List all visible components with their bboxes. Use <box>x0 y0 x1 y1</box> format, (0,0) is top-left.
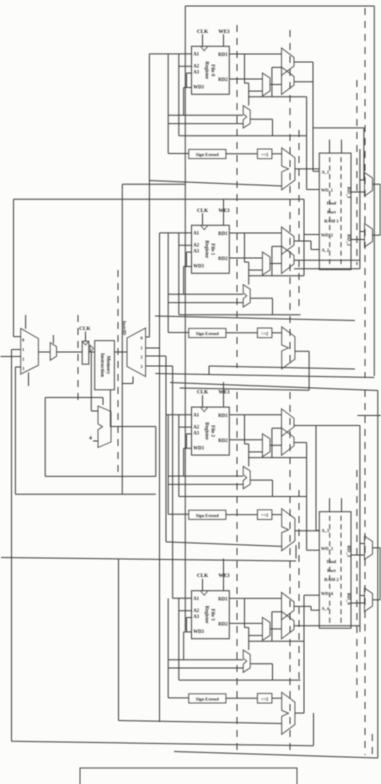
svg-text:A_3: A_3 <box>322 528 330 533</box>
ALU M1 out to RAM1 A_1 row <box>295 168 319 170</box>
svg-text:RD1: RD1 <box>218 414 228 419</box>
mux B0 <box>282 67 295 95</box>
svg-text:Port: Port <box>327 210 336 215</box>
ALU M2 <box>282 509 295 551</box>
wire y558 lane4 feed <box>1 558 296 562</box>
svg-text:File 1: File 1 <box>210 243 215 255</box>
svg-text:WD3: WD3 <box>193 265 204 270</box>
mux H select stub <box>52 335 54 344</box>
svg-text:A3: A3 <box>193 250 199 255</box>
svg-text:RD2: RD2 <box>218 622 228 627</box>
svg-text:2: 2 <box>140 355 142 360</box>
wire lower loop y97 lane 1 <box>249 275 304 277</box>
svg-text:WE3: WE3 <box>218 573 230 579</box>
mux A3 <box>282 592 295 620</box>
svg-text:Dual: Dual <box>327 201 337 206</box>
mux B2 out to x306.6 <box>294 442 307 444</box>
RAM 2 internal dashed columns <box>329 516 331 624</box>
mux G input 3 wire <box>15 366 20 368</box>
mux H output wire <box>57 351 83 353</box>
lane4 mux A out to RAM2 A_4 <box>294 605 311 607</box>
svg-text:A2: A2 <box>193 609 199 614</box>
RAM2 RD_3 wire to mux E2 <box>351 554 365 556</box>
svg-text:File 3: File 3 <box>210 609 215 621</box>
wire RD1 tap down <box>244 54 246 83</box>
svg-text:CLK: CLK <box>197 390 208 396</box>
svg-text:Register: Register <box>204 61 209 80</box>
register file 3 box <box>192 591 230 639</box>
mux B0 out to x313 <box>294 81 313 83</box>
svg-text:File 0: File 0 <box>210 64 215 76</box>
svg-text:A1: A1 <box>193 597 199 602</box>
lane4 mux B out right <box>294 625 360 627</box>
register file 0 clock wedge <box>201 46 209 51</box>
instruction memory box <box>95 341 115 390</box>
register file 3 clock wedge <box>201 591 209 596</box>
RAM 2 top input stubs <box>329 498 331 512</box>
ALU M0 bottom input wire <box>149 181 281 187</box>
adder D2 <box>243 466 250 488</box>
register file 2 box <box>192 407 230 455</box>
svg-text:Register: Register <box>204 240 209 259</box>
adder input wires <box>91 410 98 412</box>
mux E2 output <box>373 547 381 549</box>
svg-text:A1: A1 <box>193 413 199 418</box>
svg-text:A_2: A_2 <box>322 248 330 253</box>
wire into mux A3 lower input <box>272 611 282 613</box>
left main vertical bus <box>184 6 186 631</box>
svg-text:A3: A3 <box>193 615 199 620</box>
instr mux branch wires <box>146 336 150 338</box>
wire CLK to register file 2 <box>202 395 204 407</box>
vertical right of RAM1 <box>359 149 361 269</box>
instr mux output to memory <box>114 351 127 353</box>
half A lower bus <box>155 316 355 321</box>
wire RD2 to mux C2 <box>229 439 262 441</box>
mux F1 left stub <box>360 231 365 233</box>
wire into mux A2 lower input <box>272 427 282 429</box>
mux G input 2 wire from edge <box>1 356 21 358</box>
half B top bus wires <box>209 366 355 369</box>
register file 2 clock wedge <box>201 407 209 412</box>
sign extend 3 box <box>189 694 226 703</box>
svg-text:RD_4: RD_4 <box>346 593 351 605</box>
svg-text:<<2: <<2 <box>261 331 268 336</box>
shift left 2 box 1 <box>257 328 272 338</box>
svg-text:4: 4 <box>89 436 92 442</box>
dashed line x357 half B <box>356 470 358 700</box>
mux C0 <box>262 73 270 96</box>
lane4 ALU M4 out up to RAM2 WD_4 <box>295 712 304 714</box>
svg-text:RD1: RD1 <box>218 53 228 58</box>
mux G output wire <box>38 351 50 353</box>
mux E2 left stub <box>360 543 365 545</box>
vertical x313 to RAM1 A_1 <box>312 62 314 171</box>
wire WE3 to register file 1 <box>223 213 225 225</box>
dashed line x365 half A <box>364 8 366 378</box>
RAM1 RD_1 wire to mux E1 <box>351 191 365 193</box>
WD_3 feed vertical x306.6 <box>306 443 308 551</box>
wire mux C1 out to mux B1 <box>270 263 282 265</box>
svg-text:CLK: CLK <box>197 29 208 35</box>
writeback mux F1 <box>365 224 373 248</box>
instr bus wires lane 2 <box>168 475 243 477</box>
wire mux C3 out to mux B3 <box>270 628 282 630</box>
wire RD1 to mux A3 <box>229 597 281 599</box>
wire CLK to register file 1 <box>202 213 204 225</box>
svg-text:Register: Register <box>204 606 209 625</box>
lane feed vertical x166 (instr to lane 2) <box>165 356 167 542</box>
input wires register file 1 <box>160 232 192 234</box>
wire shl2 3 out to ALU M3 <box>272 697 282 699</box>
adder D3 output loop <box>250 663 272 665</box>
wire y199 <box>14 198 305 200</box>
PC value down wire <box>90 352 92 411</box>
register file 0 box <box>192 46 230 94</box>
svg-text:RAM 1: RAM 1 <box>324 219 339 224</box>
mux B1 <box>282 246 295 274</box>
wire RD1 to mux A2 <box>229 414 281 416</box>
mux A0 <box>282 48 295 76</box>
bottom wire y752 <box>174 752 378 759</box>
dashed line x237 half B <box>236 392 238 750</box>
register file 1 box <box>192 225 230 273</box>
shift left 2 box 2 <box>257 510 272 520</box>
wire sign extend 2 input <box>167 415 169 515</box>
wire y268.7 <box>294 268 360 270</box>
dashed line x237 half A <box>236 25 238 368</box>
svg-text:Sign Extend: Sign Extend <box>196 513 219 518</box>
mux F1 output <box>373 234 381 236</box>
wire shl2 1 out to ALU M1 <box>272 332 282 334</box>
input wires register file 2 <box>166 414 192 416</box>
svg-text:WD_1: WD_1 <box>321 188 333 193</box>
ALU M1 <box>282 327 295 369</box>
PC out wire <box>89 351 95 353</box>
vertical x122 <box>121 184 123 494</box>
RAM 1 top input stubs <box>329 140 331 154</box>
svg-text:Sign Extend: Sign Extend <box>196 697 219 702</box>
writeback mux F2 <box>365 588 373 612</box>
lane feed vertical x149.4 (instr to lane 0) <box>148 54 150 337</box>
vertical x316 to RAM2 A_3 <box>315 426 317 531</box>
wire RD1 to mux A1 <box>229 232 281 234</box>
wire mux A2 out right along y425.5 <box>294 425 360 427</box>
ALU M3 out to RAM2 A_3 row <box>295 530 319 532</box>
svg-text:Register: Register <box>204 422 209 441</box>
wire y184 <box>122 183 185 185</box>
svg-text:3: 3 <box>22 366 24 371</box>
svg-text:0: 0 <box>22 338 24 343</box>
right border vertical half B <box>377 391 379 759</box>
ALU M3 <box>282 692 295 734</box>
left vertical x11.5 <box>11 350 13 742</box>
instr bus wires lane 1 <box>168 293 243 295</box>
dashed line x365 half B <box>364 390 366 755</box>
sign extend 0 box <box>189 149 226 158</box>
lane2 mux B out right <box>294 259 360 261</box>
RAM2 RD_4 wire to mux F2 <box>351 602 365 604</box>
shift left 2 box 0 <box>257 149 272 159</box>
CLK WE3 feed taps lane 1 <box>223 199 225 213</box>
mux A2 <box>282 409 295 437</box>
adder D1 <box>243 285 250 307</box>
svg-text:RD_3: RD_3 <box>346 545 351 557</box>
svg-text:<<2: <<2 <box>261 513 268 518</box>
svg-text:WD3: WD3 <box>193 630 204 635</box>
dashed line x299 half A <box>298 130 300 310</box>
dashed line x118 <box>117 270 119 472</box>
PC out triangle <box>90 345 93 352</box>
adder D0 <box>243 106 250 128</box>
mux G input 1 wire <box>12 349 21 351</box>
adder loop wires <box>155 427 157 477</box>
instr memory bottom stub <box>109 390 111 427</box>
svg-text:<<2: <<2 <box>261 152 268 157</box>
register file 1 clock wedge <box>201 225 209 230</box>
wire sign extend 3 input <box>167 598 169 698</box>
small mux H <box>50 343 56 361</box>
svg-text:RD_2: RD_2 <box>346 234 351 246</box>
wire lower loop y97 lane 0 <box>249 96 307 98</box>
mux F2 left stub <box>360 595 365 597</box>
wire sign extend 1 input <box>167 233 169 333</box>
svg-text:RD2: RD2 <box>218 78 228 83</box>
dual port RAM 1 box <box>319 153 351 270</box>
vertical x313 up from bottom wire <box>313 713 315 746</box>
CLK WE3 feed taps lane 2 <box>223 382 225 395</box>
wire sign extend 0 input <box>167 54 169 154</box>
mux F2 output <box>373 599 381 601</box>
svg-text:CLK: CLK <box>79 326 90 332</box>
svg-text:A_4: A_4 <box>322 606 330 611</box>
mux E1 left stub <box>360 179 365 181</box>
wire lower loop y97 lane 3 <box>249 640 304 642</box>
wire CLK to register file 0 <box>202 34 204 46</box>
dashed line x78 <box>77 315 79 400</box>
writeback mux E1 <box>365 173 373 197</box>
top border wire <box>185 5 374 7</box>
mux C1 <box>262 252 270 275</box>
svg-text:RD_1: RD_1 <box>346 187 351 199</box>
svg-text:A_1: A_1 <box>322 170 330 175</box>
WD_1 feed vertical x306.6 <box>306 97 308 190</box>
instr mux bottom stub <box>132 377 134 384</box>
wire sign extend 3 out to shl2 <box>226 697 258 699</box>
wire RD2 to mux C1 <box>229 257 262 259</box>
svg-text:A2: A2 <box>193 425 199 430</box>
wire RD2 to mux C3 <box>229 622 262 624</box>
RAM1 WD_2 feed from writeback line <box>303 199 305 275</box>
adder D0 output loop <box>250 118 272 120</box>
svg-text:A2: A2 <box>193 65 199 70</box>
ALU M0 <box>282 148 295 190</box>
wire RD1 tap down <box>244 598 246 627</box>
adder D2 output loop <box>250 479 272 481</box>
left vertical x15.4 <box>14 367 16 494</box>
bottom wire y742 <box>12 741 314 746</box>
svg-text:InstrID: InstrID <box>122 321 127 335</box>
mux C2 <box>262 434 270 457</box>
left vertical x13.5 to mux G <box>13 199 15 336</box>
PC source mux G <box>21 328 39 374</box>
stub wire exiting right edge y415 <box>357 415 381 417</box>
svg-text:WD_3: WD_3 <box>321 546 334 551</box>
wire into mux A1 lower input <box>272 245 282 247</box>
RAM1 RD_2 wire to mux F1 <box>351 239 365 241</box>
wire RD1 tap down <box>244 233 246 262</box>
sign extend 2 box <box>189 510 226 519</box>
mux G select stub top <box>25 315 27 329</box>
wire sign extend 2 out to shl2 <box>226 514 258 516</box>
ALU M2 bottom input wire <box>166 542 282 547</box>
svg-text:Memory: Memory <box>105 356 110 375</box>
wire mux C0 out to mux B0 <box>270 84 282 86</box>
input wires register file 0 <box>149 53 191 55</box>
lane feed vertical x159.5 (instr to lane 1) <box>159 233 161 722</box>
wire CLK to register file 3 <box>202 579 204 591</box>
CLK WE3 feed taps lane 3 <box>223 559 225 579</box>
svg-text:CLK: CLK <box>197 208 208 214</box>
svg-text:RD1: RD1 <box>218 597 228 602</box>
svg-text:1: 1 <box>140 346 142 351</box>
wire WE3 to register file 3 <box>223 579 225 591</box>
M4 feed vertical x118.5 <box>118 559 120 721</box>
svg-text:2: 2 <box>22 357 24 362</box>
adder D1 output loop <box>250 297 272 299</box>
shift left 2 box 3 <box>257 693 272 703</box>
mux G input 0 wire <box>14 336 21 338</box>
mux B2 <box>282 428 295 456</box>
svg-text:A3: A3 <box>193 432 199 437</box>
svg-text:1: 1 <box>22 347 24 352</box>
sign extend 1 box <box>189 328 226 337</box>
dashed line x299 half B <box>298 490 300 690</box>
svg-text:A1: A1 <box>193 53 199 58</box>
svg-text:RD2: RD2 <box>218 257 228 262</box>
wire lower loop y97 lane 2 <box>249 457 307 459</box>
vertical right of RAM2 <box>359 426 361 633</box>
branch to writeback mux E1 <box>313 127 364 129</box>
wire sign extend 0 out to shl2 <box>226 153 258 155</box>
svg-text:A2: A2 <box>193 244 199 249</box>
dual port RAM 2 box <box>319 512 351 629</box>
svg-text:A3: A3 <box>193 71 199 76</box>
svg-text:WD3: WD3 <box>193 447 204 452</box>
wire shl2 0 out to ALU M0 <box>272 153 282 155</box>
wire y494 <box>15 493 155 495</box>
mux G select stub bottom <box>28 373 30 387</box>
adder D3 <box>243 650 250 672</box>
instr bus wires lane 3 <box>168 659 243 661</box>
PC+4 adder <box>98 406 111 448</box>
wire shl2 2 out to ALU M2 <box>272 514 282 516</box>
input wires register file 3 <box>173 597 192 599</box>
mux C3 <box>262 617 270 640</box>
dashed line x290 half B <box>289 392 291 750</box>
svg-text:3: 3 <box>140 364 142 369</box>
lane2 ALU M2 out to y388 bus <box>295 350 309 352</box>
mux E1 output <box>373 183 381 185</box>
ALU M3 bottom input wire <box>119 721 282 724</box>
right border vertical half A <box>373 6 375 376</box>
wire RD1 tap down <box>244 415 246 444</box>
instr bus wires lane 0 <box>168 114 243 116</box>
PC register box <box>82 341 89 364</box>
adder output wire <box>111 426 156 428</box>
wire RD1 to mux A0 <box>229 53 281 55</box>
vertical x296 to WD area <box>295 545 297 559</box>
wire WE3 to register file 0 <box>223 34 225 46</box>
svg-text:Port: Port <box>327 568 336 573</box>
wire RD2 to mux C0 <box>229 78 262 80</box>
dashed line x290 half A <box>289 30 291 368</box>
svg-text:WE3: WE3 <box>218 29 230 35</box>
RAM 1 internal dashed columns <box>329 157 331 265</box>
svg-text:<<2: <<2 <box>261 696 268 701</box>
instruction select mux (left-pointing) <box>127 328 146 377</box>
short dashed segment x372 bottom <box>371 734 373 756</box>
svg-text:WD_2: WD_2 <box>321 233 333 238</box>
svg-text:File 2: File 2 <box>210 425 215 437</box>
svg-text:CLK: CLK <box>197 573 208 579</box>
lane feed vertical x172.6 (instr to lane 3) <box>172 366 174 598</box>
svg-text:A1: A1 <box>193 232 199 237</box>
CLK wire to PC <box>85 332 87 342</box>
wire mux C2 out to mux B2 <box>270 444 282 446</box>
svg-text:Sign Extend: Sign Extend <box>196 331 219 336</box>
svg-text:0: 0 <box>140 336 142 341</box>
svg-text:Sign Extend: Sign Extend <box>196 152 219 157</box>
wire WE3 to register file 2 <box>223 395 225 407</box>
legend box at bottom <box>80 768 297 784</box>
mux B3 <box>282 611 295 639</box>
dashed line x357 half A <box>356 80 358 265</box>
svg-text:WE3: WE3 <box>218 208 230 214</box>
svg-text:Instruction: Instruction <box>99 353 104 377</box>
wire sign extend 1 out to shl2 <box>226 332 258 334</box>
svg-text:WD3: WD3 <box>193 86 204 91</box>
svg-text:RAM 2: RAM 2 <box>324 577 339 582</box>
svg-text:RD1: RD1 <box>218 232 228 237</box>
lane2 mux A out to RAM1 A_2 <box>294 240 311 242</box>
svg-text:RD2: RD2 <box>218 439 228 444</box>
svg-text:Dual: Dual <box>327 559 337 564</box>
svg-text:WD_4: WD_4 <box>321 591 334 596</box>
writeback mux E2 <box>365 536 373 560</box>
wire mux A0 out right <box>294 61 313 63</box>
mux A1 <box>282 227 295 255</box>
svg-text:WE3: WE3 <box>218 390 230 396</box>
wire into mux A0 lower input <box>272 66 282 68</box>
